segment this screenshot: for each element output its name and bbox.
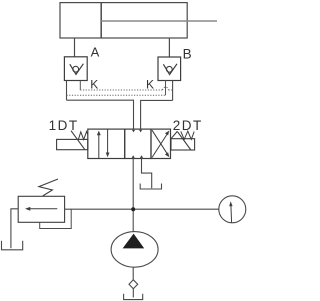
- tank (suction): [124, 294, 143, 300]
- pilot-operated check valve left (box): [64, 57, 87, 81]
- spring right (zigzag): [181, 131, 194, 139]
- gauge needle: [230, 206, 233, 223]
- wire left valve main port down: [66, 81, 68, 101]
- check valve left seat V: [70, 64, 84, 75]
- svg-text:B: B: [183, 47, 192, 62]
- solenoid 2DT box: [171, 139, 195, 150]
- wire right valve pilot port down: [165, 81, 167, 96]
- svg-text:1DT: 1DT: [49, 118, 79, 133]
- wire relief valve inlet / gauge line: [65, 208, 219, 210]
- wire cylinder port A: [74, 38, 76, 57]
- middle position blocked port marks: [132, 130, 135, 133]
- solenoid 1DT box: [57, 139, 88, 149]
- relief valve spring: [39, 179, 58, 196]
- cylinder body: [60, 3, 187, 38]
- solenoid valve right position square: [151, 129, 171, 158]
- wire left valve pilot port down: [79, 81, 81, 91]
- relief valve flow arrow: [29, 208, 58, 210]
- right position crossed arrow /: [152, 134, 168, 158]
- pump triangle: [123, 234, 145, 249]
- junction node: [131, 207, 135, 211]
- wire cylinder port B: [168, 38, 170, 57]
- pilot-operated check valve right (box): [158, 57, 181, 81]
- svg-text:2DT: 2DT: [173, 118, 203, 133]
- wire B main run to valve port: [141, 100, 173, 129]
- wire filter to tank: [132, 289, 134, 298]
- pressure gauge: [219, 196, 246, 223]
- solenoid 1DT diagonal: [71, 131, 85, 150]
- pump circle: [111, 232, 158, 268]
- wire A main run to valve port: [67, 100, 134, 129]
- left position up-arrow: [98, 134, 100, 158]
- solenoid valve middle position square: [125, 129, 151, 158]
- filter diamond: [129, 280, 138, 289]
- spring left (zigzag): [78, 132, 88, 140]
- left position down-arrow: [107, 129, 109, 153]
- wire pump suction: [132, 267, 134, 280]
- piston rod: [101, 20, 217, 22]
- wire P port down to junction and pump: [132, 159, 134, 232]
- tank (valve drain): [140, 184, 161, 190]
- tank (relief valve drain): [2, 241, 23, 250]
- svg-text:K: K: [146, 78, 154, 92]
- pilot line K1 hop over crossing: [163, 87, 169, 90]
- right position crossed arrow \: [152, 130, 168, 154]
- pilot line K1 (dotted, left pilot to right main): [80, 89, 162, 91]
- check valve left ball: [73, 66, 79, 72]
- pilot line K1 end segment: [168, 89, 172, 91]
- solenoid 2DT diagonal: [177, 131, 191, 150]
- check valve right seat V: [163, 64, 177, 75]
- pilot line K2 (dotted, left main to right pilot): [67, 94, 166, 96]
- piston: [100, 3, 102, 38]
- wire relief valve outlet to tank: [11, 209, 18, 249]
- wire T port to drain tank: [142, 159, 152, 189]
- solenoid 2DT rise line: [171, 131, 177, 138]
- wire right valve main port down: [172, 81, 174, 101]
- solenoid valve left position square: [88, 129, 125, 158]
- relief valve pilot loop: [40, 209, 71, 228]
- relief valve box: [18, 196, 64, 222]
- svg-text:A: A: [91, 44, 100, 59]
- check valve right ball: [166, 66, 172, 72]
